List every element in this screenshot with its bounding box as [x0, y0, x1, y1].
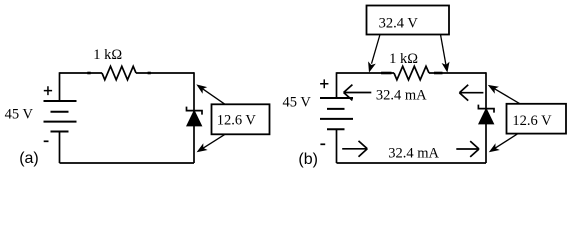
current arrow 32.4 mA bottom-left (pointing right): [342, 141, 367, 157]
svg-text:45 V: 45 V: [5, 106, 34, 122]
junction dot on (a) top wire left: [87, 72, 90, 75]
svg-text:1 kΩ: 1 kΩ: [93, 47, 122, 63]
current arrow 32.4 mA top-right (pointing left): [459, 85, 483, 101]
wire: circuit (a) right wire: [193, 72, 195, 163]
current arrow 32.4 mA top-left (pointing left): [344, 85, 372, 101]
zener diode D1 cathode bar (a): [187, 107, 203, 115]
junction segment on (b) top wire right: [434, 72, 443, 75]
svg-text:32.4 mA: 32.4 mA: [376, 87, 427, 103]
wire: circuit (a) left wire lower (from battery -): [59, 132, 61, 164]
svg-text:12.6 V: 12.6 V: [217, 113, 257, 129]
annotation box 32.4 V: [367, 6, 450, 35]
label: battery - (b): [320, 143, 325, 145]
svg-text:12.6 V: 12.6 V: [512, 113, 552, 129]
wire: circuit (b) top wire right segment: [429, 72, 486, 74]
svg-text:1 kΩ: 1 kΩ: [389, 51, 418, 67]
arrow from 12.6 V box to diode anode node (b): [492, 134, 519, 151]
svg-text:32.4 V: 32.4 V: [379, 16, 419, 32]
annotation box 12.6 V (a): [212, 104, 270, 134]
wire: circuit (a) top wire right segment: [136, 72, 194, 74]
annotation box 12.6 V (b): [507, 104, 567, 134]
arrow from 12.6 V box to diode cathode node (b): [491, 87, 520, 104]
label: battery + (b): [320, 79, 328, 88]
wire: circuit (a) top wire left segment: [60, 72, 103, 74]
arrow from 32.4 V box to right resistor node: [441, 35, 447, 66]
wire: circuit (b) left wire upper (to battery +): [336, 72, 338, 98]
svg-text:32.4 mA: 32.4 mA: [388, 145, 439, 161]
zener diode D1 anode triangle (a): [187, 111, 202, 126]
zener diode D2 cathode bar (b): [478, 105, 494, 113]
svg-text:(a): (a): [19, 150, 39, 167]
wire: circuit (b) right wire: [485, 72, 487, 163]
wire: circuit (b) bottom wire: [337, 162, 487, 164]
arrow from 12.6 V box to diode anode node (a): [200, 134, 226, 150]
junction dot on (a) top wire right: [148, 72, 151, 75]
arrow from 32.4 V box to left resistor node: [372, 35, 381, 64]
label: battery - (a): [44, 140, 49, 142]
resistor R2 1 kOhm (b): [394, 66, 429, 80]
battery B2 45 V (b) plates: [320, 98, 353, 129]
wire: circuit (a) bottom wire: [60, 162, 195, 164]
svg-text:(b): (b): [298, 151, 318, 168]
svg-text:45 V: 45 V: [283, 94, 312, 110]
junction segment on (b) top wire left: [381, 72, 392, 75]
wire: circuit (b) top wire left segment: [337, 72, 395, 74]
current arrow 32.4 mA bottom-right (pointing right): [456, 141, 479, 157]
label: battery + (a): [44, 86, 52, 95]
battery B1 45 V (a) plates: [44, 101, 77, 132]
zener diode D2 anode triangle (b): [479, 109, 494, 124]
wire: circuit (a) left wire upper (to battery +): [59, 72, 61, 101]
arrow from 12.6 V box to diode cathode node (a): [199, 86, 225, 104]
wire: circuit (b) left wire lower (from battery -): [336, 129, 338, 163]
resistor R1 1 kOhm (a): [102, 66, 136, 80]
